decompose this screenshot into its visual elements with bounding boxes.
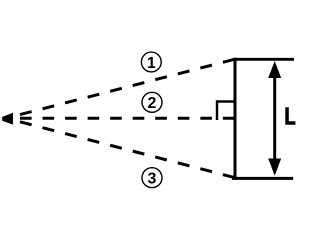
svg-text:3: 3 [148,171,157,188]
dimension arrow bottom head [268,159,281,176]
right-angle mark at ray 2 [217,102,235,121]
dimension arrow top head [268,61,281,78]
svg-text:1: 1 [147,55,156,72]
label L [285,107,295,124]
label circle 1 [141,52,161,72]
bar top edge [234,58,295,61]
ray 3 (dashed, to bottom of bar) [20,122,235,178]
apex arrowhead (vertex point) [2,113,13,125]
ray 2 (dashed, horizontal axis) [20,117,235,120]
dimension arrow shaft [273,74,276,161]
svg-text:2: 2 [148,95,157,112]
ray 1 (dashed, to top of bar) [20,59,235,114]
bar bottom edge [232,177,293,180]
label circle 2 [142,92,162,112]
bar left vertical edge [234,58,237,180]
label circle 3 [142,168,162,188]
